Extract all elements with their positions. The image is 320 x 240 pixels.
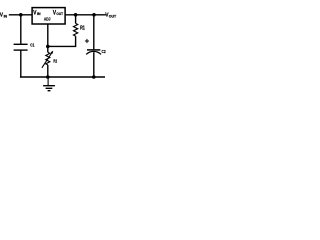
node junction dot C2/ground rail [92, 75, 96, 79]
label VIN pin [33, 10, 41, 16]
node junction dot output/C2 [92, 13, 96, 17]
node junction dot ground rail [46, 75, 50, 79]
ground [43, 77, 55, 91]
node VIN label [0, 12, 8, 18]
regulator U1 box [32, 8, 65, 24]
wire C2 branch down [93, 15, 95, 50]
node VOUT label [105, 13, 117, 19]
resistor R1 [74, 23, 78, 36]
capacitor C1 [14, 44, 28, 50]
node junction dot input/C1 [19, 13, 23, 17]
wire VOUT from regulator to output [65, 14, 106, 16]
svg-text:C2: C2 [102, 49, 107, 54]
label VOUT pin [53, 10, 64, 16]
wire bottom ground rail [20, 76, 105, 78]
plus sign C2 polarity [85, 39, 89, 43]
wire VIN input to regulator [9, 14, 32, 16]
svg-text:R1: R1 [80, 25, 85, 31]
node junction dot ADJ/R1 [46, 45, 50, 49]
svg-text:OUT: OUT [56, 12, 63, 16]
svg-text:C1: C1 [30, 43, 34, 49]
wire ADJ pin down [47, 24, 49, 52]
svg-text:IN: IN [37, 12, 41, 16]
node junction dot output/R1 [74, 13, 78, 17]
wire C1 to ground rail [20, 50, 22, 77]
resistor R2 variable [42, 51, 53, 68]
wire R1 top lead [75, 15, 77, 24]
svg-text:OUT: OUT [109, 14, 117, 18]
svg-text:IN: IN [4, 14, 8, 18]
svg-text:R2: R2 [53, 59, 57, 64]
capacitor C2 polarized [86, 50, 101, 55]
wire R1 bottom lead to ADJ [48, 36, 76, 46]
wire C1 branch down [20, 15, 22, 44]
wire C2 bottom lead [93, 52, 95, 77]
wire R2 bottom lead [47, 65, 49, 77]
svg-text:ADJ: ADJ [44, 17, 51, 23]
